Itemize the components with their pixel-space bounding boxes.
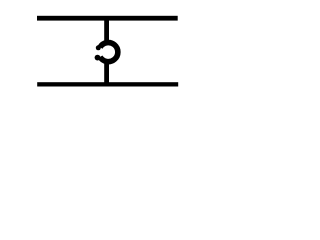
- wire vertical stem bottom segment: [104, 61, 109, 87]
- inductor coupling loop L1 arc: [100, 43, 118, 62]
- loop upper gap end blob: [96, 45, 101, 50]
- wire top rail: [37, 16, 178, 21]
- loop lower gap end blob: [95, 55, 101, 61]
- wire bottom rail: [37, 82, 178, 86]
- wire vertical stem top segment: [104, 17, 109, 43]
